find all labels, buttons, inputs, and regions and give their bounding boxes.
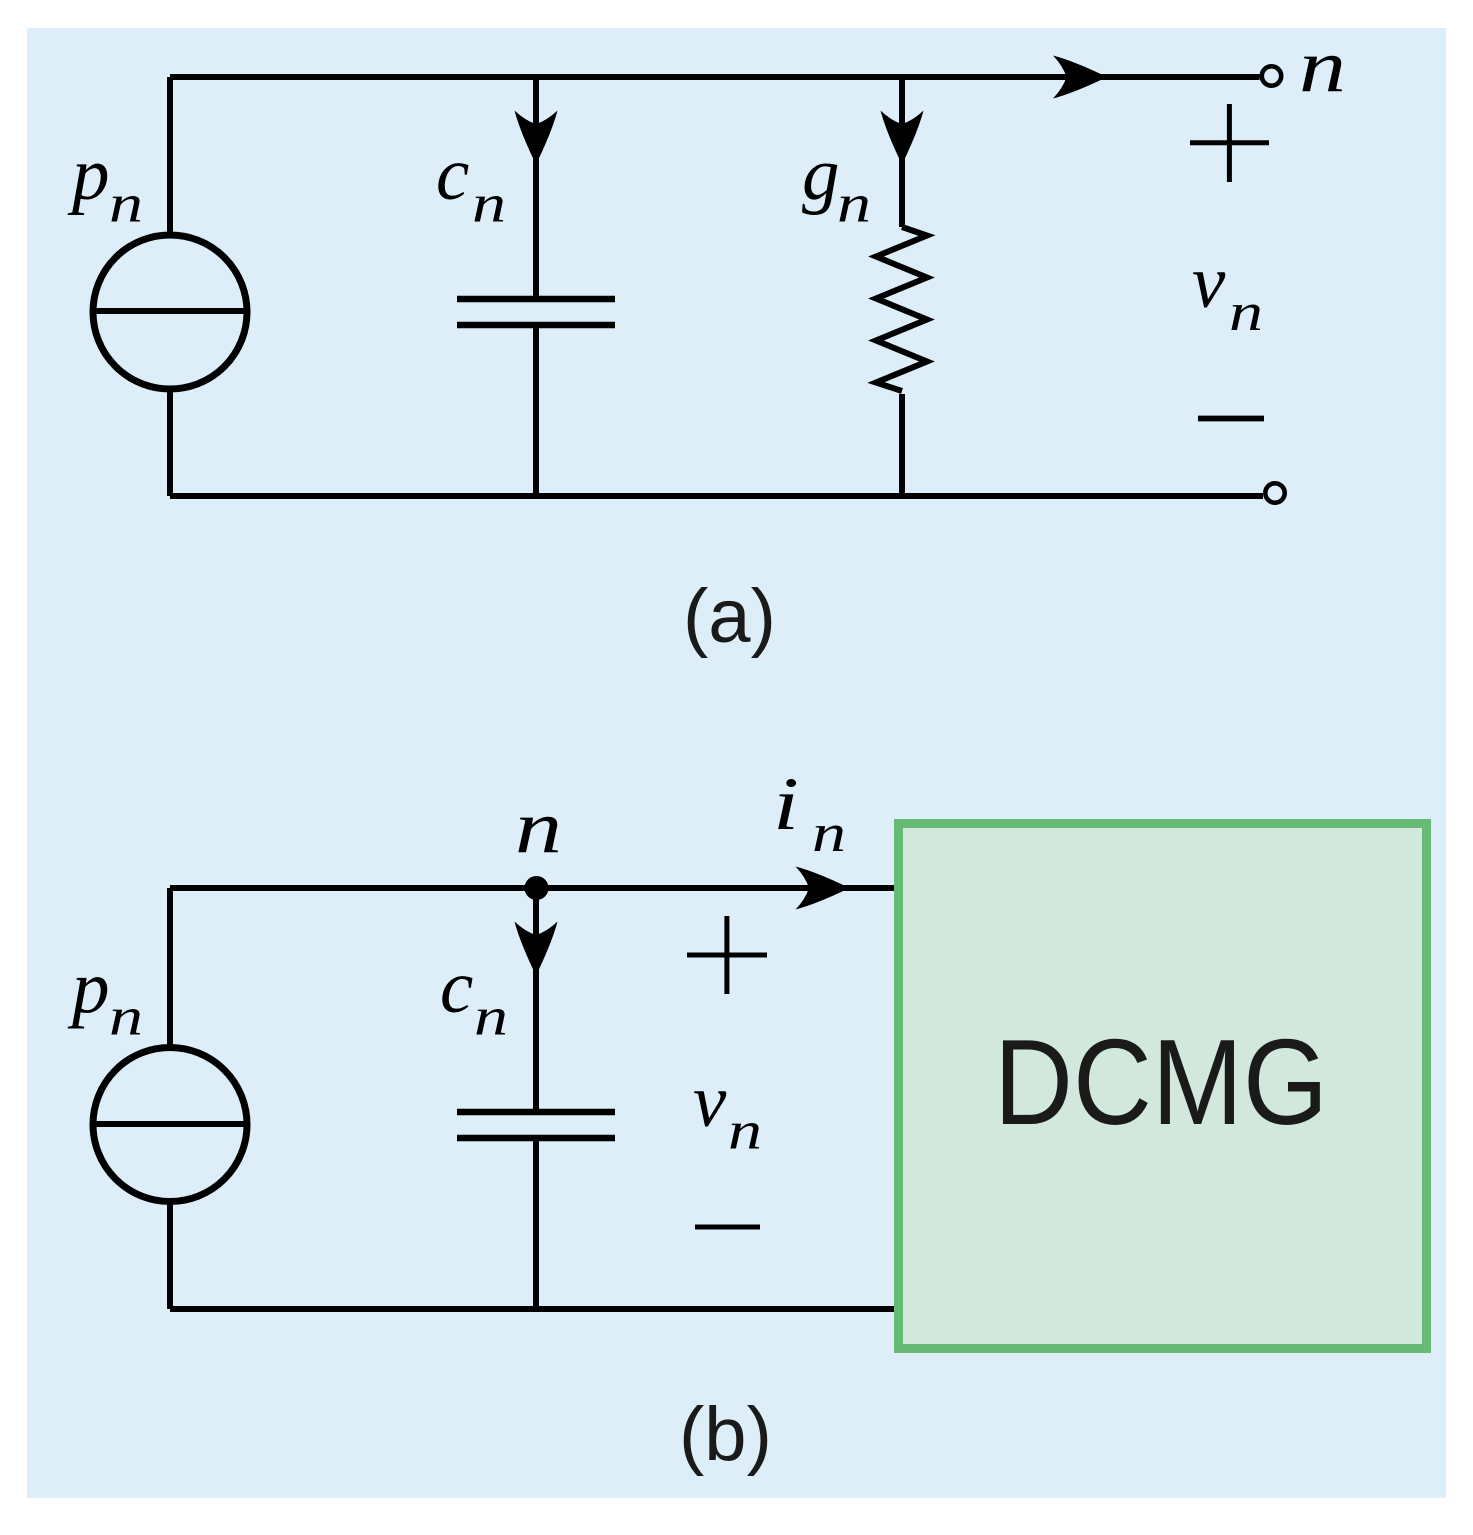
svg-text:c: c: [436, 133, 469, 216]
svg-text:n: n: [474, 987, 508, 1047]
svg-text:v: v: [1192, 241, 1226, 324]
svg-text:n: n: [837, 174, 871, 234]
svg-text:n: n: [109, 987, 143, 1047]
svg-text:c: c: [440, 946, 473, 1029]
svg-text:n: n: [109, 174, 143, 234]
svg-text:(b): (b): [679, 1392, 772, 1477]
svg-text:DCMG: DCMG: [994, 1014, 1328, 1150]
svg-text:n: n: [728, 1101, 762, 1161]
svg-text:(a): (a): [683, 574, 776, 659]
svg-text:n: n: [1299, 25, 1346, 108]
svg-text:p: p: [67, 947, 110, 1030]
svg-text:n: n: [515, 786, 562, 869]
svg-text:p: p: [67, 133, 110, 216]
svg-text:n: n: [1229, 282, 1263, 342]
svg-text:n: n: [472, 174, 506, 234]
svg-text:n: n: [812, 803, 846, 863]
svg-text:g: g: [802, 133, 840, 216]
svg-text:i: i: [773, 763, 799, 846]
svg-text:v: v: [693, 1060, 727, 1143]
